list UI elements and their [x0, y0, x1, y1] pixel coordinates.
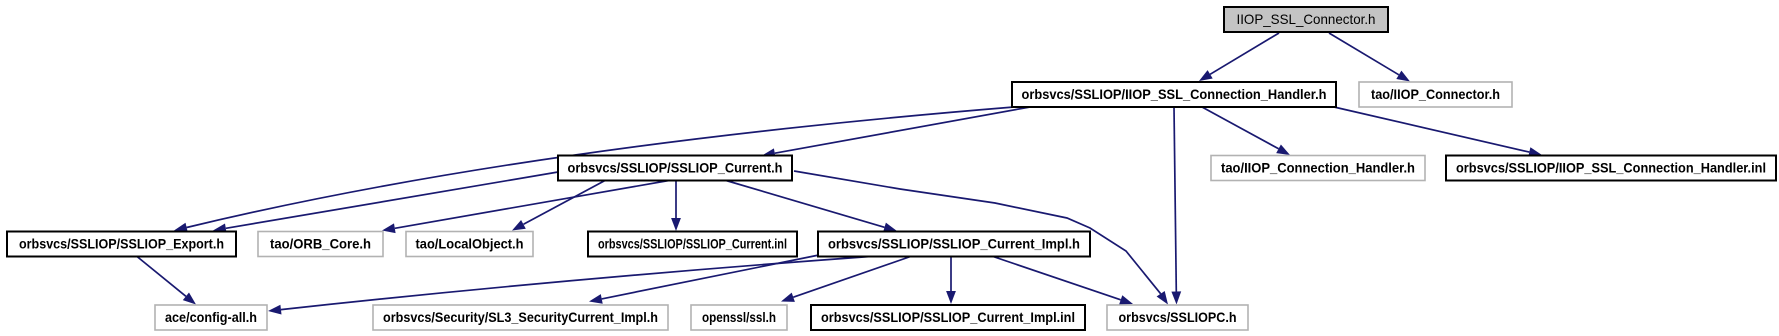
svg-text:IIOP_SSL_Connector.h: IIOP_SSL_Connector.h [1237, 12, 1376, 27]
svg-text:orbsvcs/SSLIOP/SSLIOP_Current.: orbsvcs/SSLIOP/SSLIOP_Current.inl [598, 237, 787, 252]
svg-text:openssl/ssl.h: openssl/ssl.h [702, 310, 776, 325]
svg-text:tao/ORB_Core.h: tao/ORB_Core.h [270, 237, 371, 252]
svg-text:ace/config-all.h: ace/config-all.h [165, 310, 257, 325]
svg-text:orbsvcs/SSLIOP/SSLIOP_Current_: orbsvcs/SSLIOP/SSLIOP_Current_Impl.h [828, 237, 1080, 252]
svg-text:orbsvcs/SSLIOPC.h: orbsvcs/SSLIOPC.h [1119, 310, 1237, 325]
svg-text:orbsvcs/Security/SL3_SecurityC: orbsvcs/Security/SL3_SecurityCurrent_Imp… [383, 310, 658, 325]
svg-text:tao/LocalObject.h: tao/LocalObject.h [416, 237, 524, 252]
svg-text:tao/IIOP_Connection_Handler.h: tao/IIOP_Connection_Handler.h [1221, 161, 1415, 176]
svg-text:orbsvcs/SSLIOP/IIOP_SSL_Connec: orbsvcs/SSLIOP/IIOP_SSL_Connection_Handl… [1022, 87, 1327, 102]
svg-text:orbsvcs/SSLIOP/IIOP_SSL_Connec: orbsvcs/SSLIOP/IIOP_SSL_Connection_Handl… [1456, 161, 1766, 176]
svg-text:orbsvcs/SSLIOP/SSLIOP_Export.h: orbsvcs/SSLIOP/SSLIOP_Export.h [19, 237, 224, 252]
svg-text:orbsvcs/SSLIOP/SSLIOP_Current_: orbsvcs/SSLIOP/SSLIOP_Current_Impl.inl [821, 310, 1075, 325]
svg-text:orbsvcs/SSLIOP/SSLIOP_Current.: orbsvcs/SSLIOP/SSLIOP_Current.h [568, 161, 783, 176]
svg-text:tao/IIOP_Connector.h: tao/IIOP_Connector.h [1371, 87, 1500, 102]
